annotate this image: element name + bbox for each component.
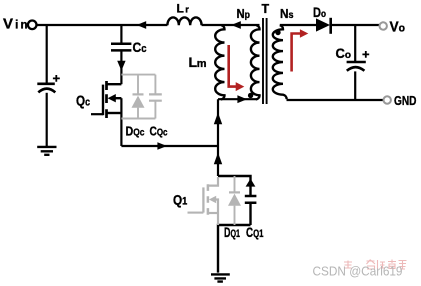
diode DQ1 (gray) <box>234 176 236 225</box>
arrow up on switch node upper <box>214 113 222 125</box>
wire secondary bottom rail <box>287 99 384 101</box>
wire top rail left (Vin to Lr) <box>37 24 167 26</box>
arrow up on switch node lower <box>214 153 222 165</box>
watermark pink <box>344 260 407 270</box>
winding Ns <box>273 25 287 99</box>
transistor Q1 (gray) <box>188 177 219 225</box>
arrow right on transformer bottom wire <box>237 95 247 103</box>
arrow red secondary current <box>292 34 301 72</box>
inductor Lm (magnetizing) <box>215 25 224 99</box>
wire Q1 network bottom <box>218 225 251 273</box>
wire Co branch <box>354 25 356 61</box>
svg-text:T: T <box>262 2 270 16</box>
node Np polarity dot <box>248 93 253 98</box>
wire switch node vertical <box>217 99 219 176</box>
svg-text:CQc: CQc <box>150 123 168 138</box>
wire clamp network bottom (gray) <box>121 118 155 120</box>
capacitor CQc (gray) <box>154 75 156 119</box>
capacitor input electrolytic <box>37 83 55 86</box>
diode Do <box>316 18 330 31</box>
transformer core T <box>263 18 267 104</box>
svg-text:GND: GND <box>394 93 417 108</box>
capacitor Co electrolytic <box>347 61 366 64</box>
inductor Lr <box>167 17 201 25</box>
svg-text:DQ1: DQ1 <box>224 225 240 240</box>
capacitor CQ1 <box>245 196 257 203</box>
wire Qc source down <box>120 98 122 146</box>
svg-text:CQ1: CQ1 <box>246 225 264 240</box>
svg-text:CSDN @Carl619: CSDN @Carl619 <box>313 265 403 279</box>
winding Np <box>251 25 260 99</box>
svg-text:Lr: Lr <box>177 2 190 16</box>
arrow red primary current <box>229 45 236 87</box>
wire Cc to Qc drain <box>120 51 122 85</box>
wire diode to Vo <box>332 24 380 26</box>
wire top rail (Lr to Np top) <box>202 24 260 26</box>
wire Q1 network top <box>218 176 251 196</box>
svg-text:Vo: Vo <box>390 19 406 35</box>
arrow down on clamp branch <box>117 61 125 71</box>
arrow left on top rail near x=137 <box>137 21 147 29</box>
arrow up on CQ1 branch <box>246 179 256 187</box>
wire input branch down <box>46 25 48 83</box>
wire Qc source to switch node <box>121 145 218 147</box>
node Vin terminal <box>28 21 37 30</box>
ground input <box>37 147 56 155</box>
svg-text:Qc: Qc <box>76 94 90 110</box>
svg-text:Co: Co <box>336 46 352 61</box>
wire input cap to ground <box>46 93 48 146</box>
wire Co to bottom rail <box>354 71 356 100</box>
wire clamp branch from top rail <box>120 25 122 43</box>
capacitor Cc <box>111 44 131 51</box>
transistor Qc <box>91 81 121 118</box>
diode DQc (gray) <box>137 75 139 119</box>
wire Ns top to diode <box>280 24 316 26</box>
arrow left on top rail near x=231 <box>231 21 241 29</box>
svg-text:DQc: DQc <box>126 123 145 138</box>
wire transformer bottom (Lm/Np bottom) <box>218 98 257 100</box>
node GND terminal <box>384 96 391 103</box>
node Ns polarity dot <box>275 30 280 35</box>
ground Q1 <box>211 274 230 281</box>
wire clamp network top (gray) <box>121 74 155 76</box>
arrow right on clamp bottom wire <box>157 142 167 150</box>
node Vo terminal <box>380 22 387 29</box>
